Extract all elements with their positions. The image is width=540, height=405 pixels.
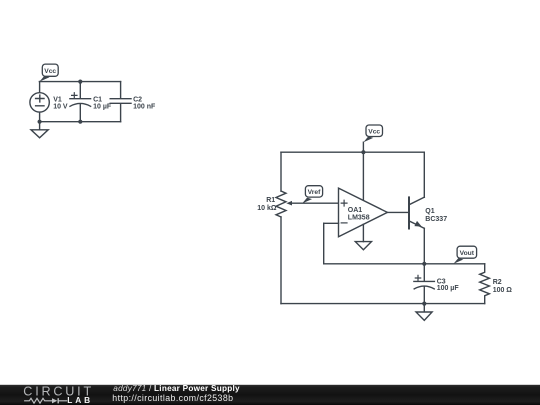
net flag Vcc at V1 (39, 64, 58, 82)
wire left vertical R1 bottom to bottom rail (280, 217, 282, 304)
voltage source V1 (30, 82, 68, 122)
footer bar (0, 385, 540, 405)
net flag Vout (454, 246, 477, 264)
wire op-amp V- pin to ground (362, 224, 364, 241)
svg-text:C1: C1 (93, 96, 102, 103)
wire emitter down (423, 228, 425, 263)
net flag Vcc at op-amp (363, 125, 382, 152)
svg-text:10 kΩ: 10 kΩ (257, 205, 277, 212)
wire op-amp V+ supply pin (362, 152, 364, 200)
svg-text:10 V: 10 V (53, 103, 68, 110)
ground at V1 (31, 122, 48, 138)
svg-text:addy771 / Linear Power Supply: addy771 / Linear Power Supply (113, 384, 240, 393)
resistor R2 (480, 264, 513, 304)
op-amp OA1 (339, 188, 388, 237)
svg-text:R2: R2 (493, 279, 502, 286)
junction node C3 ground (422, 302, 426, 306)
junction node output (422, 262, 426, 266)
wire inverting input (324, 222, 339, 224)
wire bottom rail right circuit (281, 303, 485, 305)
CircuitLab logo (23, 384, 94, 405)
wire output horizontal (324, 263, 485, 265)
ground at op-amp (355, 242, 371, 250)
capacitor C2 (110, 82, 156, 122)
svg-text:OA1: OA1 (348, 207, 363, 214)
svg-text:100 nF: 100 nF (133, 103, 156, 110)
svg-text:100 µF: 100 µF (437, 285, 460, 292)
svg-text:R1: R1 (266, 197, 275, 204)
transistor Q1 (409, 197, 447, 228)
svg-text:http://circuitlab.com/cf2538b: http://circuitlab.com/cf2538b (112, 393, 233, 403)
svg-text:100 Ω: 100 Ω (493, 287, 513, 294)
junction node C1 top (78, 80, 82, 84)
wire feedback vertical (323, 223, 325, 263)
svg-text:Vcc: Vcc (368, 128, 380, 135)
junction node Vcc rail (361, 150, 365, 154)
net flag Vref (302, 186, 322, 204)
svg-text:Vout: Vout (460, 250, 475, 257)
svg-text:Vcc: Vcc (44, 68, 56, 75)
svg-text:V1: V1 (53, 96, 62, 103)
svg-text:10 µF: 10 µF (93, 103, 112, 110)
svg-text:BC337: BC337 (425, 216, 447, 223)
wire collector to top rail (423, 152, 425, 197)
capacitor C1 (70, 82, 112, 122)
junction node V1 bottom (38, 120, 42, 124)
svg-text:Q1: Q1 (425, 208, 434, 215)
svg-text:LAB: LAB (67, 395, 93, 405)
svg-text:Vref: Vref (308, 189, 321, 196)
wire left vertical to R1 top (280, 152, 282, 191)
svg-text:C2: C2 (133, 96, 142, 103)
wire op-amp output to base (387, 211, 409, 213)
ground at C3 (416, 304, 432, 321)
junction node C1 bottom (78, 120, 82, 124)
capacitor C3 (414, 264, 459, 304)
wire top rail left circuit (39, 81, 120, 83)
wire top rail right circuit (281, 151, 424, 153)
svg-text:LM358: LM358 (348, 215, 370, 222)
potentiometer R1 (257, 191, 338, 217)
wire bottom rail left circuit (39, 121, 120, 123)
